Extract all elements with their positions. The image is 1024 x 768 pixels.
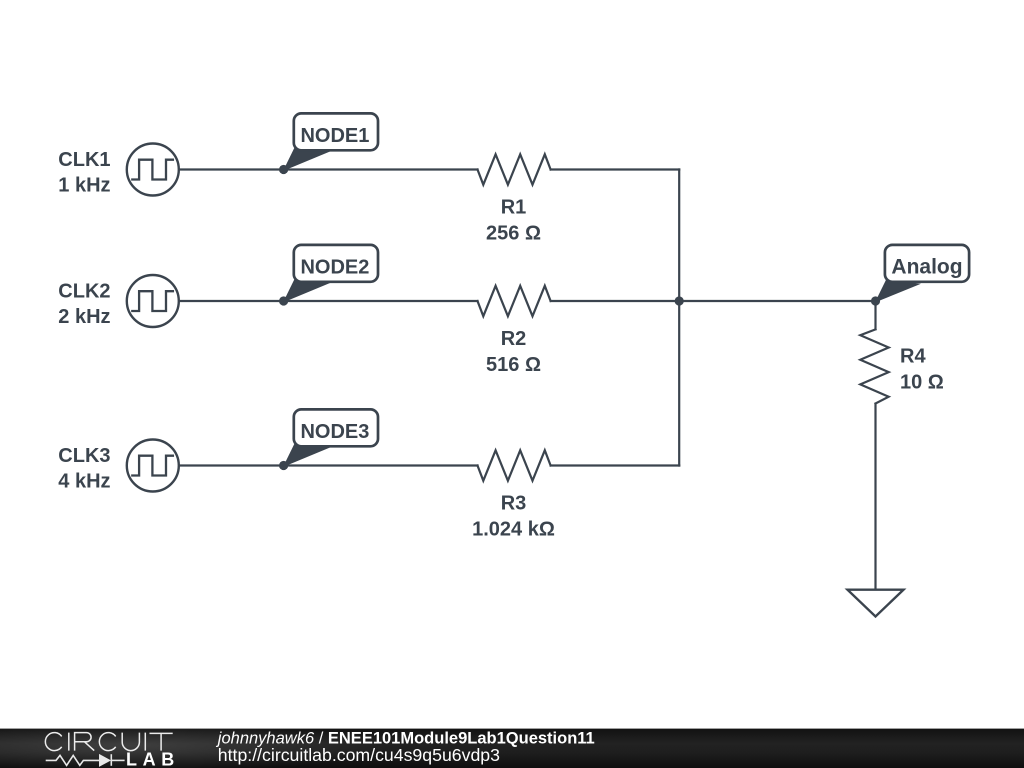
- svg-text:1.024 kΩ: 1.024 kΩ: [472, 519, 555, 541]
- svg-text:LAB: LAB: [126, 749, 180, 768]
- svg-text:Analog: Analog: [891, 256, 962, 279]
- svg-text:R2: R2: [501, 328, 527, 350]
- svg-text:1 kHz: 1 kHz: [58, 175, 110, 197]
- svg-text:CLK2: CLK2: [58, 280, 110, 302]
- svg-text:NODE3: NODE3: [300, 421, 369, 443]
- svg-text:256 Ω: 256 Ω: [486, 222, 541, 244]
- svg-text:516 Ω: 516 Ω: [486, 354, 541, 376]
- svg-text:NODE1: NODE1: [300, 125, 369, 147]
- svg-text:NODE2: NODE2: [300, 257, 369, 279]
- svg-text:R4: R4: [900, 346, 926, 368]
- svg-text:CLK1: CLK1: [58, 149, 110, 171]
- svg-text:4 kHz: 4 kHz: [58, 471, 110, 493]
- svg-text:R1: R1: [501, 196, 527, 218]
- svg-text:2 kHz: 2 kHz: [58, 306, 110, 328]
- svg-text:CLK3: CLK3: [58, 445, 110, 467]
- svg-text:http://circuitlab.com/cu4s9q5u: http://circuitlab.com/cu4s9q5u6vdp3: [218, 745, 500, 765]
- svg-text:R3: R3: [501, 493, 527, 515]
- svg-text:10 Ω: 10 Ω: [900, 372, 944, 394]
